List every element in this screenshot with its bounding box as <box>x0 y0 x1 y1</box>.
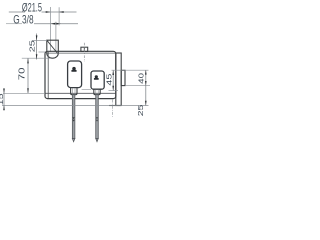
ext line arc bottom <box>22 57 50 59</box>
right probe collar <box>96 117 98 119</box>
boss centerline <box>112 100 114 118</box>
right sensor stem <box>94 89 100 95</box>
svg-text:G 3/8: G 3/8 <box>13 14 34 27</box>
inner shelf between sensors <box>82 89 91 91</box>
extension line thread right <box>58 7 60 25</box>
ext line 45 bottom <box>109 90 119 92</box>
dim cut left line <box>3 88 5 110</box>
flange right <box>116 53 121 106</box>
svg-text:45: 45 <box>105 74 113 86</box>
pipe bottom arc <box>47 53 59 58</box>
body inner top lid line <box>46 52 116 54</box>
left probe collar <box>73 117 75 119</box>
svg-text:15: 15 <box>0 93 4 105</box>
extension line thread mid <box>55 22 57 52</box>
pipe section diagonal <box>47 41 58 54</box>
body inner left wall <box>47 52 49 98</box>
left sensor stem <box>71 88 77 95</box>
svg-text:25: 25 <box>28 40 36 52</box>
dim line G 3/8 <box>6 23 22 25</box>
svg-text:70: 70 <box>18 67 27 80</box>
boss right <box>121 70 125 85</box>
left sensor <box>68 61 82 88</box>
left probe <box>72 95 75 139</box>
ext line inner bottom left <box>3 92 45 94</box>
right sensor <box>91 71 104 89</box>
dim 40/25 right line <box>145 70 147 105</box>
dim 70 left line <box>27 58 29 93</box>
right sensor icon <box>95 75 98 78</box>
dim line Ø21.5 <box>9 11 25 13</box>
ext line 45/40 top <box>112 69 149 71</box>
flange foot <box>109 105 121 107</box>
left sensor icon <box>72 67 76 71</box>
plug centerline <box>83 43 85 62</box>
pipe spigot G3/8 <box>47 40 59 53</box>
svg-text:25: 25 <box>136 105 144 117</box>
right probe <box>96 95 99 139</box>
svg-text:40: 40 <box>137 73 145 84</box>
dim 45 line <box>112 70 114 90</box>
body inner bottom <box>45 92 116 94</box>
plug on top <box>81 47 88 51</box>
ext line pipe top left <box>32 40 47 42</box>
body outline <box>45 51 116 98</box>
extension line thread left <box>49 7 51 52</box>
ext line foot full width <box>2 105 149 107</box>
ext line body top left <box>39 51 46 53</box>
svg-text:Ø21.5: Ø21.5 <box>22 2 42 15</box>
ext line 40/25 mid <box>125 85 150 87</box>
dim 25 left line <box>36 34 38 60</box>
